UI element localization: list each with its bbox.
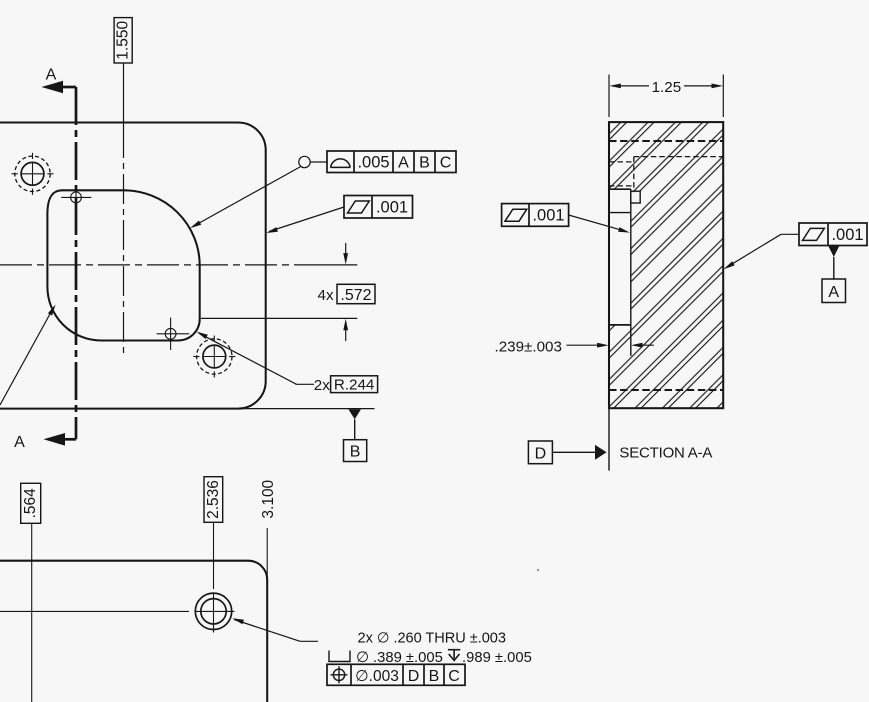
parallelism symbol [348,201,370,213]
svg-text:D: D [535,446,547,463]
plate outline (top view, cropped at left image edge) [0,123,266,409]
part outline (bottom view, cropped) [0,561,267,702]
all-around circle + leader for profile frame [193,156,327,226]
dimension 1.550 (boxed, rotated) [114,18,132,63]
svg-text:1.25: 1.25 [652,79,682,96]
section arrow A (bottom) [14,433,76,451]
svg-text:A: A [828,284,839,301]
counterbored hole (lower-right): visible hole + hidden c'bore [193,336,235,378]
hole horizontal centerline [0,610,235,612]
svg-text:C: C [440,155,452,172]
svg-text:B: B [350,444,361,461]
pocket void (unhatched strip) [609,189,631,325]
position feature control frame [327,664,465,685]
dimension 1.25 [609,75,723,118]
pocket arc center mark 1 [61,189,91,206]
feature control frame: parallelism .001 (upper) [344,196,413,219]
svg-text:.564: .564 [22,488,39,519]
svg-text:1.550: 1.550 [115,21,132,60]
svg-text:.001: .001 [376,199,408,217]
leader from hole to note [232,618,318,641]
svg-text:∅.003: ∅.003 [355,668,399,685]
svg-text:.572: .572 [340,287,371,304]
corner step notch [631,191,640,203]
dimension 4x .572 [201,243,375,341]
datum D symbol [528,441,606,464]
feature control frame: parallelism .001 (left of section) [502,204,630,233]
position symbol [331,666,348,683]
dimension .564 (boxed, rotated) [21,483,41,702]
svg-text:.989 ±.005: .989 ±.005 [462,650,532,666]
svg-text:C: C [448,668,460,685]
section body hatching [609,122,723,408]
datum B symbol [238,409,375,462]
section outline [609,122,723,408]
dimension 2x R.244 with leader [197,332,378,394]
svg-text:A: A [398,155,409,172]
hole note line 2: counterbore symbol [329,651,350,662]
dimension .239 ±.003 [495,338,654,355]
leader from parallelism frame to plate right edge [269,207,344,232]
section arrow A (top) [42,67,77,94]
dimension 3.100 (rotated) [260,479,277,580]
counterbored hole (upper-left): visible hole + hidden c'bore [12,153,54,195]
svg-text:2x ∅ .260 THRU ±.003: 2x ∅ .260 THRU ±.003 [358,630,506,646]
profile-of-surface symbol [330,159,350,167]
svg-text:B: B [429,668,440,685]
svg-text:D: D [408,668,420,685]
arrowhead at plate edge [266,227,278,233]
leader from off-image label to pocket lower-left arc [0,304,56,405]
section cutting line A-A (thick dash-dot) [75,87,78,439]
svg-text:4x: 4x [318,287,334,304]
svg-text:.001: .001 [532,207,564,225]
svg-text:A: A [14,434,25,451]
svg-text:R.244: R.244 [334,376,375,393]
svg-text:B: B [419,155,430,172]
svg-text:2.536: 2.536 [205,480,222,519]
svg-text:3.100: 3.100 [260,479,277,518]
pocket arc center mark 2 [157,318,190,350]
hole vertical centerline / 2.536 extension [213,522,215,632]
hidden (dashed) hole lines in section [609,141,723,390]
svg-text:.001: .001 [831,226,863,244]
stray mark [537,569,539,571]
svg-text:.239±.003: .239±.003 [495,338,562,355]
pocket edges in section [609,189,631,356]
counterbored hole (bottom view) [195,593,231,629]
horizontal centerline of pocket [0,264,357,266]
feature control frame: profile .005 A B C [327,151,456,173]
feature control frame: parallelism .001 with datum A (right of section) [724,223,867,303]
arrowhead to pocket edge [190,221,201,229]
pocket (rounded cutout) [47,190,199,340]
dimension 2.536 (boxed, rotated) [204,477,223,523]
depth symbol [448,650,460,661]
svg-text:SECTION A-A: SECTION A-A [619,445,712,462]
vertical centerline of pocket [123,63,125,357]
svg-text:A: A [46,67,57,84]
svg-text:.005: .005 [357,154,389,172]
svg-text:2x: 2x [314,377,330,394]
section trace below body [608,409,610,471]
